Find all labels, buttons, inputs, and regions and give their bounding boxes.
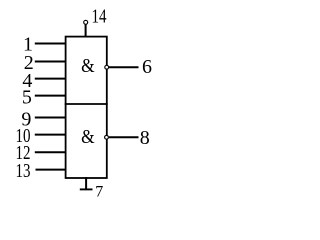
svg-text:8: 8 [140, 127, 150, 149]
svg-text:5: 5 [22, 86, 32, 108]
svg-text:7: 7 [95, 183, 103, 200]
wire output pin 8 [109, 136, 139, 138]
svg-text:14: 14 [92, 6, 107, 28]
svg-text:&: & [81, 55, 95, 77]
svg-text:13: 13 [16, 160, 31, 182]
inversion bubble pin 8 [105, 135, 109, 139]
IC body outline U1 [66, 37, 107, 178]
wire Vcc stub pin 14 [85, 25, 87, 38]
wire pin 9 [35, 117, 66, 119]
wire pin 13 [36, 169, 67, 171]
wire pin 1 [35, 43, 66, 45]
svg-text:6: 6 [142, 56, 152, 78]
wire pin 10 [35, 134, 66, 136]
wire output pin 6 [109, 66, 139, 68]
wire pin 12 [35, 151, 66, 153]
wire pin 4 [35, 78, 66, 80]
wire GND stub pin 7 [85, 177, 87, 189]
GND bar pin 7 [80, 188, 93, 190]
svg-text:&: & [81, 126, 95, 148]
IC U1: dual 4-input NAND (7420-style) schematic symbol [0, 0, 167, 204]
inversion bubble pin 6 [105, 65, 109, 69]
wire pin 5 [35, 95, 66, 97]
gate divider line [65, 103, 108, 105]
wire pin 2 [35, 61, 66, 63]
Vcc open circle pin 14 [84, 20, 88, 24]
